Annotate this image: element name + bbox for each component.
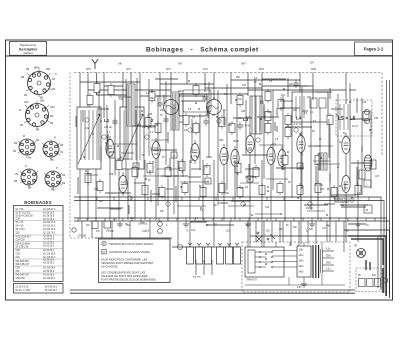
tube V3 [191,140,199,164]
L5 L6 box dashed [336,100,372,136]
svg-text:53-C38-C38: 53-C38-C38 [16,247,29,249]
svg-text:A2 53 36,4: A2 53 36,4 [43,249,55,252]
socket V3 pinout [19,139,35,155]
ground [117,221,123,227]
svg-text:TENSION EN VOLTS SANS SIGNAL: TENSION EN VOLTS SANS SIGNAL [109,242,154,246]
socket V6 pinout [45,171,61,187]
dark hatched coil ellipse [364,155,372,171]
svg-text:8M: 8M [36,130,39,132]
svg-text:24,72: 24,72 [352,126,358,128]
svg-text:A2 115 76,2: A2 115 76,2 [43,232,56,235]
svg-text:51 = 56: 51 = 56 [16,209,24,211]
svg-text:A2 53 36,2: A2 53 36,2 [43,245,55,248]
svg-text:55 = 56: 55 = 56 [16,222,24,224]
right edge circled meters [359,109,376,179]
table sub box [14,284,64,294]
svg-text:CH3: CH3 [86,69,91,71]
svg-text:C40: C40 [16,257,21,259]
svg-text:C27: C27 [375,176,380,178]
tube V1 mixer top view [164,100,179,115]
mains cord thick wires [344,230,390,296]
svg-text:2M: 2M [60,145,63,147]
svg-text:2M: 2M [62,183,65,185]
svg-text:1M: 1M [62,175,65,177]
dashed left enclosure edge [70,73,97,239]
svg-text:C12: C12 [191,230,196,232]
svg-text:L4: L4 [296,116,302,121]
svg-text:4-513-518-517-: 4-513-518-517- [16,237,32,239]
L2 shield box [120,107,156,169]
tube V6 [267,144,275,168]
svg-text:ms rem: ms rem [193,276,201,279]
circled voltage callouts [85,118,354,206]
svg-text:C38: C38 [374,118,379,120]
tube V10 [119,172,127,196]
long bus wires [70,238,355,293]
wire drops into power section [248,221,344,252]
svg-text:8M: 8M [40,98,43,100]
component stacks mid [85,109,369,199]
svg-text:1M: 1M [28,188,31,190]
svg-text:55 = 543: 55 = 543 [16,229,26,231]
coil L1 windings [81,110,97,160]
small text block voir depart [334,198,350,204]
svg-text:12M: 12M [50,107,55,109]
svg-text:518-513-5480-: 518-513-5480- [16,244,31,246]
svg-text:AU CHASSIS.: AU CHASSIS. [100,265,118,269]
vertical drop wires [80,127,358,220]
svg-text:BOBINAGES: BOBINAGES [24,200,52,205]
svg-text:8M6y: 8M6y [34,68,40,70]
svg-text:130v: 130v [299,255,305,257]
svg-text:115v: 115v [299,250,305,252]
svg-text:157 160: 157 160 [78,236,87,238]
svg-text:C38: C38 [94,189,99,191]
socket V5 pinout [21,169,37,185]
ground under transformer [301,281,307,287]
svg-text:C39: C39 [16,254,21,256]
scattered measurement labels [96,117,315,233]
svg-text:4M: 4M [14,143,17,145]
svg-text:12M: 12M [24,102,29,104]
svg-text:1M: 1M [52,89,55,91]
coil L3 [242,96,262,134]
svg-text:R15: R15 [241,111,246,113]
svg-text:A2 58 81,5: A2 58 81,5 [43,238,55,241]
svg-text:C38: C38 [248,150,253,152]
svg-text:1M6: 1M6 [40,101,45,103]
svg-text:LES CONDENSATEURS DONT LES: LES CONDENSATEURS DONT LES [101,271,145,275]
tube V12 [278,146,286,170]
svg-text:6M: 6M [50,116,53,118]
svg-text:C27: C27 [320,189,325,191]
svg-text:56 140 26,7: 56 140 26,7 [45,290,58,292]
svg-text:1M: 1M [50,123,53,125]
tube V7 [297,132,305,156]
svg-text:C56: C56 [16,268,21,270]
svg-text:C27: C27 [242,85,247,87]
pages box [355,42,393,56]
svg-text:52-57-511-512: 52-57-511-512 [16,213,32,215]
svg-text:B: B [23,134,25,138]
svg-text:532-528-526-: 532-528-526- [16,261,30,263]
svg-text:E: E [54,136,56,140]
capacitor C54 [226,243,233,264]
svg-text:A2 56 38,2: A2 56 38,2 [43,274,55,277]
svg-text:56 140 26,1: 56 140 26,1 [45,287,58,289]
socket V4 pinout [43,141,59,157]
svg-text:SAUF INDICATION CONTRAIRE, LES: SAUF INDICATION CONTRAIRE, LES [101,258,148,262]
svg-text:81 2A. (= 125): 81 2A. (= 125) [16,289,31,292]
wire risers from rail [80,73,346,119]
svg-text:2M: 2M [13,151,16,153]
svg-text:1M: 1M [15,174,18,176]
L1 shield box [77,107,112,169]
small components upper mid [87,80,299,111]
socket V2 pinout [26,104,49,127]
svg-text:2 47 42: 2 47 42 [294,124,302,126]
svg-text:2M2: 2M2 [150,98,155,100]
svg-text:245v: 245v [299,272,305,274]
svg-text:6,3V: 6,3V [297,287,302,289]
svg-text:1M: 1M [28,158,31,160]
svg-text:A2 511 75,6: A2 511 75,6 [43,221,56,224]
svg-text:545-546-C47: 545-546-C47 [16,275,30,277]
capacitor C51 [196,243,203,264]
svg-text:2M2: 2M2 [219,140,224,142]
electrolytic capacitor row [172,246,240,248]
svg-text:CH3: CH3 [126,69,131,71]
heater bus ticks [78,197,375,221]
svg-text:145v: 145v [299,261,305,263]
logo box Departement Serradiox [10,42,47,56]
svg-text:A2 58 36,1: A2 58 36,1 [43,262,55,265]
tube V11 [231,146,239,170]
bus tick labels [86,225,369,233]
svg-text:Bobinages - Schéma complet: Bobinages - Schéma complet [146,47,259,54]
svg-text:A2 56 33,6: A2 56 33,6 [43,270,55,273]
svg-text:A2 58 18,0: A2 58 18,0 [43,215,55,218]
mains selector box [245,247,284,282]
svg-text:529-C38-C47: 529-C38-C47 [16,264,31,266]
tuning arrow across L2 [121,114,143,164]
socket leader ticks [18,69,62,190]
svg-text:CH4: CH4 [203,69,208,71]
svg-text:C38: C38 [16,219,21,221]
svg-text:54 = 58: 54 = 58 [16,226,24,228]
svg-text:LAMPES 7-13: LAMPES 7-13 [334,198,349,201]
capacitor C55 [234,243,241,264]
capacitor C53 [217,243,224,264]
svg-text:A2 511 26,2: A2 511 26,2 [43,225,56,228]
svg-text:C58-C59: C58-C59 [16,278,26,280]
svg-text:350v: 350v [326,263,332,265]
table separators [14,211,64,273]
svg-text:21 20 A-6 VL: 21 20 A-6 VL [16,286,30,289]
capacitor C50 [187,243,194,264]
svg-text:A2 511 75,6: A2 511 75,6 [43,228,56,231]
svg-text:CA1 42: CA1 42 [104,126,112,129]
socket V1 pinout [28,72,51,95]
svg-text:C12: C12 [85,128,90,130]
rail labels [86,63,317,72]
ground [183,221,189,227]
table rows [16,208,56,280]
L4 box [292,92,328,126]
svg-text:CH3: CH3 [166,69,171,71]
svg-text:A2 110 56,8: A2 110 56,8 [43,253,56,256]
header bottom rule [6,55,393,57]
ground [245,221,251,227]
svg-text:C12: C12 [265,207,270,209]
svg-text:C27: C27 [322,228,327,230]
tube V9 rectifier [342,172,350,196]
svg-text:2M7: 2M7 [46,69,51,71]
svg-text:VOIR DEPART: VOIR DEPART [334,201,350,204]
svg-text:SW7: SW7 [241,64,247,66]
tube V1 [106,136,114,160]
top interconnect wires [80,80,346,96]
wire segments [76,78,371,225]
svg-text:C38: C38 [109,174,114,176]
svg-text:TENSIONS SONT PRISES PAR RAPPO: TENSIONS SONT PRISES PAR RAPPORT [101,261,154,265]
coil winding bar L2a [127,84,135,126]
svg-text:A2 115 27,0: A2 115 27,0 [43,208,56,211]
ground [355,221,361,227]
svg-text:C38: C38 [16,250,21,252]
tube V4 [220,144,228,168]
svg-text:350v: 350v [326,256,332,258]
coil winding bar L2b [171,92,179,130]
misc value labels [85,77,380,233]
white patch top-right quiet zone [356,76,381,98]
svg-text:C12: C12 [362,102,367,104]
selector to transformer wires [245,242,345,285]
power transformer T1 [297,245,334,278]
boxed callout 3 [364,180,371,187]
svg-text:A2 53 36,0: A2 53 36,0 [43,242,55,245]
power section dashed enclosure [242,242,350,292]
table outer box [14,206,64,282]
svg-text:COURANT EN mA SANS SIGNAL: COURANT EN mA SANS SIGNAL [109,250,151,254]
svg-text:1M2: 1M2 [51,190,56,192]
tube V2 [152,138,160,162]
svg-text:Pages 2-2: Pages 2-2 [364,47,384,52]
svg-text:K: K [56,166,58,170]
svg-text:2M2: 2M2 [178,91,183,93]
additional vertical wires [99,78,371,214]
tube V2 mixer top view [207,100,222,115]
boxed number callouts [109,152,303,184]
svg-text:C 47 42: C 47 42 [242,126,251,128]
svg-text:M: M [103,244,105,246]
svg-text:A2 115 34,1: A2 115 34,1 [43,277,56,280]
ground [309,221,315,227]
lower vertical wires to bottom bus [82,221,358,247]
output transformer hatched bar [319,153,327,170]
svg-text:A2 58 16,0: A2 58 16,0 [43,212,55,215]
svg-text:M: M [19,110,21,112]
page outer border frame [6,40,393,300]
svg-text:FONT PARTIE DES BLOCS DE BOBIN: FONT PARTIE DES BLOCS DE BOBINAGES. [101,278,157,282]
switch cross symbols above power box [256,232,275,242]
svg-text:53-514-C38-C38: 53-514-C38-C38 [16,216,34,218]
svg-text:2M: 2M [26,69,29,71]
tube V5 [246,132,254,156]
svg-text:1M: 1M [60,152,63,154]
svg-text:2M2: 2M2 [279,229,284,231]
tube V8 [342,133,350,157]
svg-text:SW5: SW5 [311,69,317,71]
additional horizontal segments [86,140,340,214]
svg-text:SW3: SW3 [259,69,265,71]
svg-text:HP: HP [354,246,358,248]
capacitor C52 [205,243,212,264]
dashed antenna rail [74,73,382,157]
svg-text:Gebied: Gebied [23,51,32,55]
boxed callout 45 [364,205,372,213]
right edge bus wires with nested corners [74,80,390,298]
coupling box between L2 and L3 [179,94,207,116]
mid band small components [112,113,242,135]
bottom right dashed box [356,268,388,292]
speaker HP [354,246,366,258]
svg-text:220v: 220v [299,266,305,268]
svg-text:TRAFO 67: TRAFO 67 [246,279,258,282]
svg-text:A2 110 56,4: A2 110 56,4 [43,267,56,270]
left lower component cluster [72,221,163,238]
antenna Y [92,59,98,69]
tuning arrow across L1 [78,114,100,164]
svg-text:C38-C38: C38-C38 [16,240,26,242]
svg-text:1HT: 1HT [310,63,315,65]
